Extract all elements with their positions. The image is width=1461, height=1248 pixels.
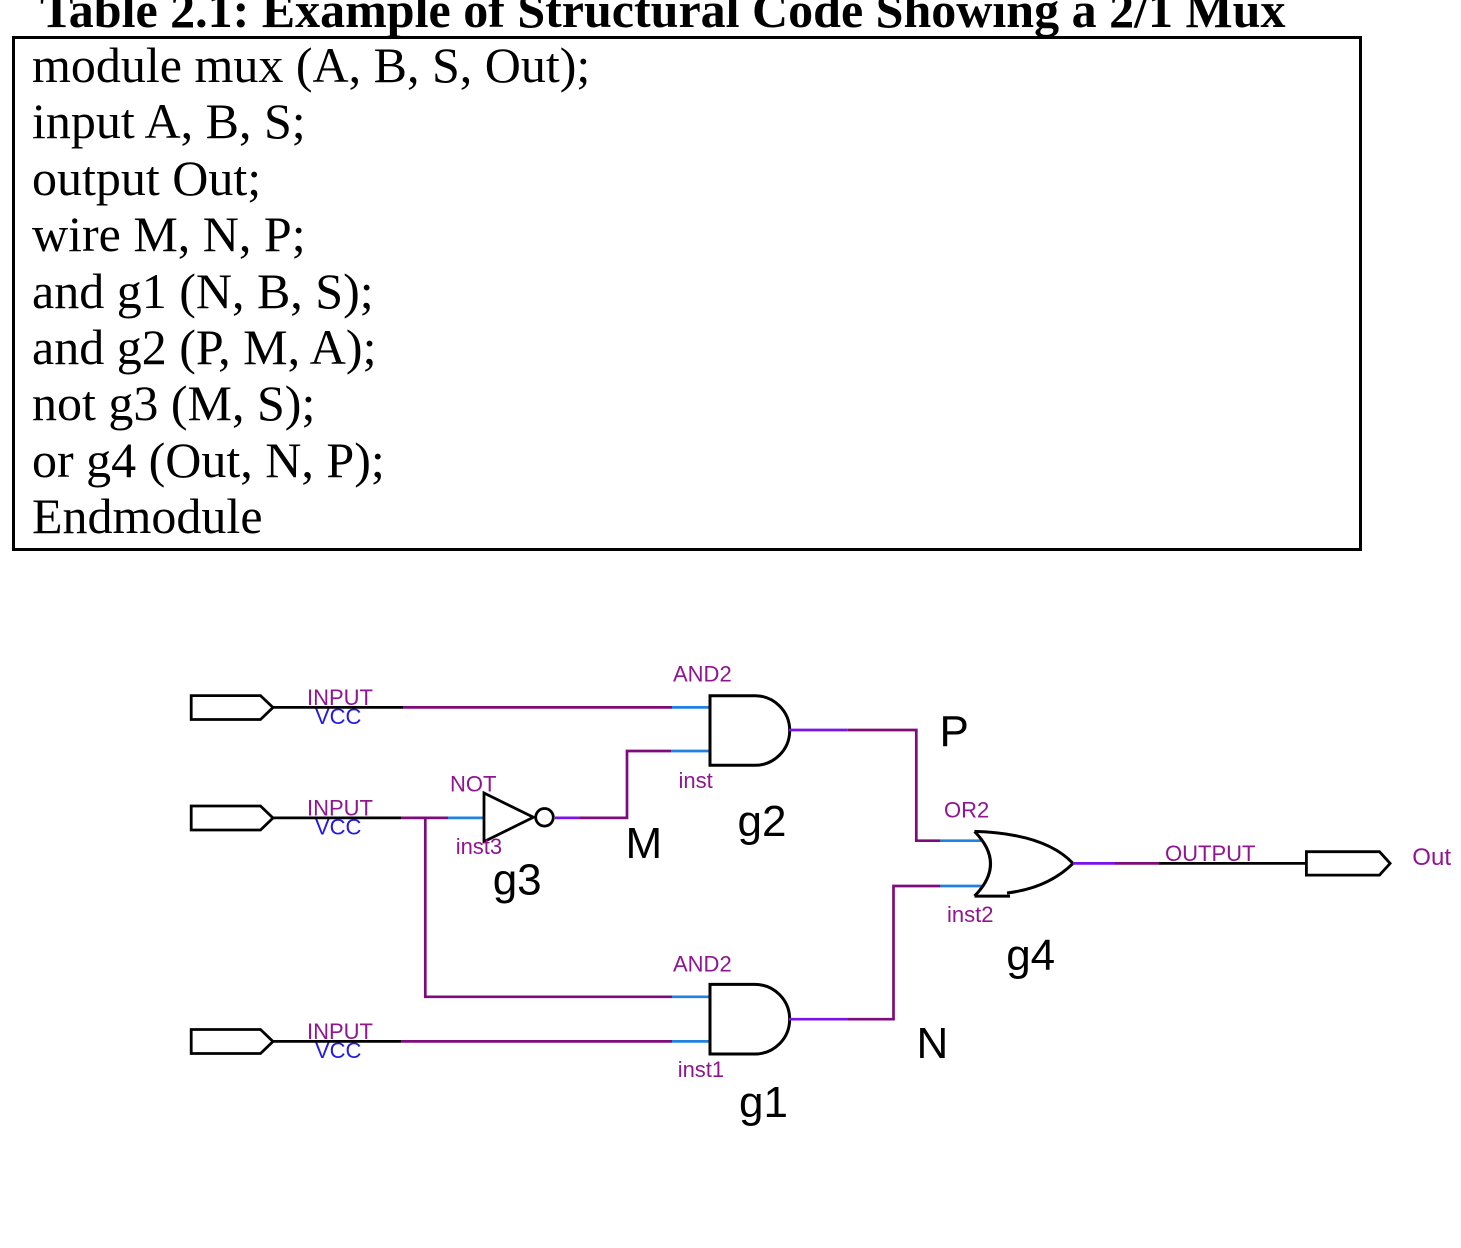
- svg-text:AND2: AND2: [673, 952, 732, 977]
- pin stub g1 input 2 (blue): [672, 1040, 710, 1043]
- wire pin A stub (black): [273, 706, 403, 709]
- label VCC (pin A): [315, 704, 362, 729]
- wire net B (purple): [401, 1040, 672, 1043]
- wire net S riser to g1 (purple): [425, 818, 672, 997]
- label OUTPUT: [1165, 841, 1255, 866]
- code box: structural Verilog of the 2/1 mux: [12, 36, 1362, 551]
- label AND2 (g2): [673, 662, 732, 687]
- wire net M (purple): [580, 751, 671, 818]
- svg-text:Out: Out: [1412, 844, 1451, 871]
- not gate g3 output bubble: [536, 809, 554, 827]
- pin stub g4 input 2 (blue): [940, 885, 982, 888]
- label g4: [1006, 931, 1055, 980]
- svg-text:g2: g2: [738, 797, 787, 846]
- output stub g2 (violet): [789, 729, 848, 732]
- label inst1 (g1): [678, 1057, 724, 1082]
- wire pin B stub (black): [273, 1040, 401, 1043]
- pin stub g3 input (blue): [448, 817, 484, 820]
- node P label: [940, 707, 969, 756]
- and gate g1 (AND2): [710, 984, 790, 1054]
- node N label: [917, 1019, 949, 1068]
- wire net S (purple): [401, 817, 448, 820]
- svg-text:AND2: AND2: [673, 662, 732, 687]
- svg-text:N: N: [917, 1019, 949, 1068]
- label VCC (pin B): [315, 1038, 362, 1063]
- label INPUT (pin A): [307, 685, 373, 710]
- svg-text:g1: g1: [739, 1078, 788, 1127]
- svg-text:OUTPUT: OUTPUT: [1165, 841, 1255, 866]
- wire to output pin (black): [1159, 862, 1306, 865]
- label NOT (g3): [450, 772, 496, 797]
- svg-text:OR2: OR2: [944, 798, 989, 823]
- svg-text:M: M: [626, 819, 663, 868]
- input pin B: [191, 1030, 273, 1054]
- svg-text:g4: g4: [1006, 931, 1055, 980]
- not gate g3 (NOT) triangle: [484, 793, 533, 842]
- svg-text:inst: inst: [679, 768, 713, 793]
- label inst (g2): [679, 768, 713, 793]
- pin stub g4 input 1 (blue): [940, 839, 982, 842]
- title: Table 2.1 caption: [40, 0, 1285, 39]
- svg-text:P: P: [940, 707, 969, 756]
- label Out (pin): [1412, 844, 1451, 871]
- output pin Out: [1306, 852, 1390, 875]
- output stub g3 (violet): [555, 817, 580, 820]
- svg-text:inst2: inst2: [947, 902, 993, 927]
- or gate g4 (OR2) body: [975, 831, 1074, 896]
- label INPUT (pin B): [307, 1019, 373, 1044]
- input pin S: [191, 806, 273, 830]
- svg-text:g3: g3: [493, 856, 542, 905]
- label VCC (pin S): [315, 814, 362, 839]
- svg-text:inst1: inst1: [678, 1057, 724, 1082]
- output stub g1 (violet): [789, 1018, 848, 1021]
- node M label: [626, 819, 663, 868]
- pin stub g2 input 1 (blue): [672, 706, 710, 709]
- wire net Out (purple): [1115, 862, 1159, 865]
- pin stub g2 input 2 (blue): [671, 750, 710, 753]
- and gate g2 (AND2): [710, 696, 790, 766]
- label g1: [739, 1078, 788, 1127]
- wire net P (purple): [848, 730, 941, 841]
- pin stub g1 input 1 (blue): [672, 995, 710, 998]
- label inst3 (g3): [456, 834, 502, 859]
- svg-text:NOT: NOT: [450, 772, 496, 797]
- label inst2 (g4): [947, 902, 993, 927]
- wire net A (purple): [403, 706, 672, 709]
- label g3: [493, 856, 542, 905]
- wire pin S stub (black): [273, 817, 401, 820]
- input pin A: [191, 696, 273, 720]
- label OR2 (g4): [944, 798, 989, 823]
- output stub g4 (violet): [1073, 862, 1115, 865]
- label INPUT (pin S): [307, 795, 373, 820]
- label AND2 (g1): [673, 952, 732, 977]
- wire net N (purple): [848, 886, 940, 1019]
- label g2: [738, 797, 787, 846]
